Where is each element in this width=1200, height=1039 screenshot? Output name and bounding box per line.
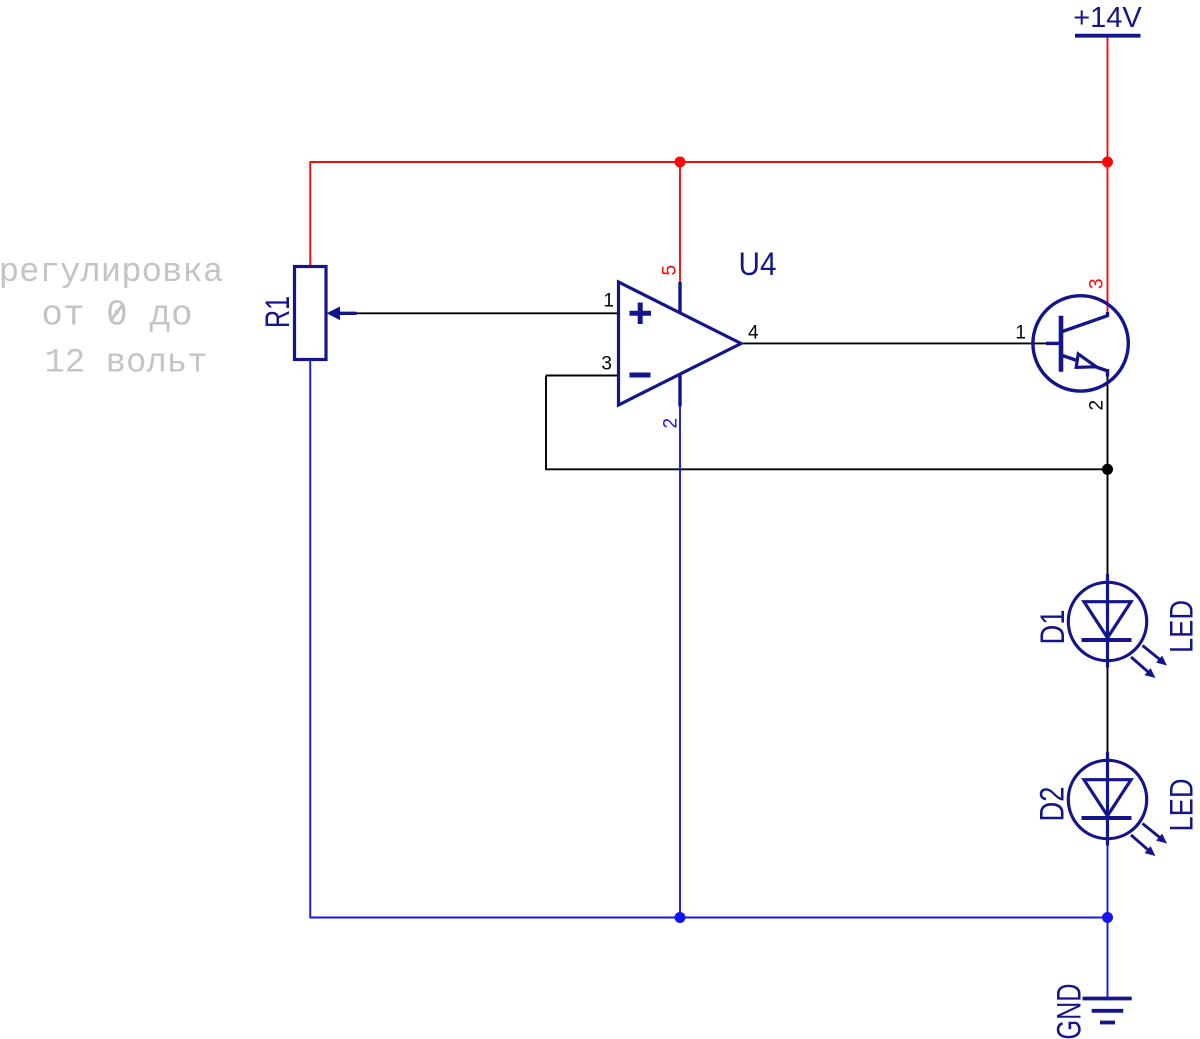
svg-text:GND: GND bbox=[1051, 984, 1089, 1039]
svg-text:4: 4 bbox=[748, 323, 759, 344]
svg-text:2: 2 bbox=[1087, 400, 1108, 411]
svg-text:LED: LED bbox=[1164, 600, 1200, 653]
svg-text:от 0 до: от 0 до bbox=[41, 295, 192, 336]
svg-text:D2: D2 bbox=[1034, 787, 1072, 822]
svg-text:D1: D1 bbox=[1034, 610, 1072, 645]
svg-text:1: 1 bbox=[1015, 323, 1026, 344]
svg-text:+14V: +14V bbox=[1073, 2, 1142, 34]
svg-text:R1: R1 bbox=[259, 296, 297, 328]
svg-text:регулировка: регулировка bbox=[0, 254, 223, 292]
svg-text:LED: LED bbox=[1164, 779, 1200, 832]
svg-text:3: 3 bbox=[601, 354, 612, 375]
svg-text:3: 3 bbox=[1087, 278, 1108, 289]
svg-text:5: 5 bbox=[660, 265, 681, 276]
svg-text:U4: U4 bbox=[739, 246, 777, 282]
svg-text:12 вольт: 12 вольт bbox=[44, 345, 207, 383]
svg-text:1: 1 bbox=[603, 291, 614, 312]
svg-text:2: 2 bbox=[661, 418, 682, 429]
